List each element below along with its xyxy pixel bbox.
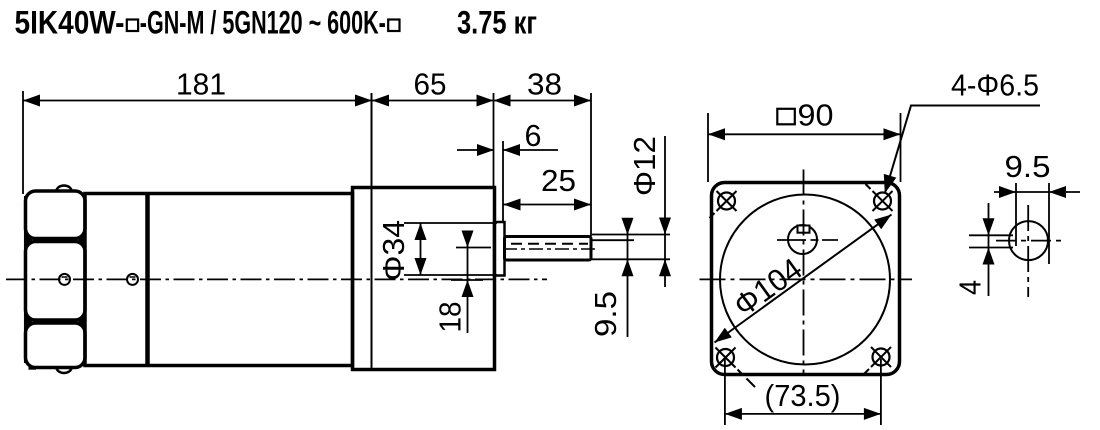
dim 6 tail right	[503, 149, 558, 151]
shaft flat hidden line	[511, 243, 588, 245]
terminal cover 2	[26, 242, 86, 321]
top screw bump	[57, 186, 72, 192]
svg-text:4-Φ6.5: 4-Φ6.5	[951, 68, 1039, 103]
shaft section circle	[1009, 221, 1048, 260]
screw head left	[59, 274, 70, 285]
dim 181 extension left	[22, 91, 24, 194]
screw head right	[127, 274, 138, 285]
horizontal centerline	[700, 278, 913, 280]
terminal box left spine	[24, 196, 27, 363]
svg-text:Φ104: Φ104	[727, 251, 808, 323]
svg-text:25: 25	[541, 163, 576, 198]
dim 90 square symbol	[777, 109, 795, 125]
svg-text:18: 18	[433, 302, 468, 333]
terminal cover 3	[26, 323, 86, 368]
dim phi12 extension top	[592, 234, 670, 236]
svg-text:3.75 кг: 3.75 кг	[457, 5, 537, 41]
title square 2	[388, 20, 399, 32]
dim 181 line	[23, 100, 372, 102]
dim 90 extension left	[707, 113, 709, 182]
keyway notch	[798, 226, 810, 233]
dim 4 reference top	[969, 234, 1013, 236]
dim 6 tail left	[457, 149, 494, 151]
svg-text:Φ12: Φ12	[627, 136, 662, 196]
main centerline	[6, 278, 547, 280]
bolt hole BL	[716, 348, 756, 388]
bolt hole TL	[710, 191, 737, 218]
svg-text:Φ34: Φ34	[376, 220, 411, 281]
dim 18 tick top	[456, 247, 491, 249]
dim 38 extension right	[590, 93, 592, 236]
spine cusp 1	[26, 235, 33, 246]
svg-text:5IK40W-: 5IK40W-	[15, 5, 125, 41]
spine cusp 2	[26, 316, 33, 327]
dim 73.5 extension right	[880, 359, 882, 425]
gearbox flange line and 65 extension	[371, 93, 373, 370]
dim 18 tick bottom	[451, 279, 483, 281]
flange square	[712, 183, 900, 375]
detail vertical centerline	[1027, 205, 1029, 297]
svg-text:90: 90	[798, 98, 834, 133]
bolt hole BR	[864, 347, 891, 374]
dim phi104 diagonal line	[715, 215, 892, 343]
svg-text:6: 6	[525, 118, 542, 153]
vertical centerline	[803, 170, 805, 376]
hole centerline tick right	[822, 239, 838, 241]
spine cusp right 2	[78, 316, 85, 327]
title square 1	[127, 20, 138, 32]
dim 9.5 detail line	[994, 191, 1080, 193]
svg-text:4: 4	[953, 280, 988, 295]
dim 38 line	[494, 100, 592, 102]
output hole	[788, 225, 817, 254]
motor body	[85, 194, 353, 366]
dim 90 extension right	[900, 113, 902, 182]
dim 90 line	[708, 133, 901, 135]
bolt hole TR	[866, 184, 893, 211]
svg-text:(73.5): (73.5)	[765, 378, 841, 413]
dim phi34 extension top	[404, 222, 497, 224]
dim 4 line	[988, 203, 990, 296]
svg-text:38: 38	[527, 67, 562, 102]
dim 18 line	[467, 232, 469, 333]
dim 9.5 detail extension left	[1015, 183, 1017, 246]
gearbox pilot circle	[720, 195, 890, 365]
terminal cover 1	[26, 191, 86, 239]
dim 65 line	[372, 100, 494, 102]
dim 6 extension boss	[502, 141, 504, 221]
gearbox body	[353, 188, 495, 370]
dim phi34 extension bottom	[404, 274, 497, 276]
output shaft	[505, 237, 592, 261]
svg-text:9.5: 9.5	[588, 291, 623, 337]
bottom screw bump	[57, 368, 72, 374]
hole centerline tick dash	[811, 239, 819, 241]
dim 9.5 line	[627, 224, 629, 337]
callout leader line	[885, 106, 1040, 194]
dim 73.5 line	[725, 413, 881, 415]
spine cusp right 1	[78, 235, 85, 246]
dim 25 line	[504, 204, 592, 206]
dim 9.5 extension flat	[592, 239, 634, 241]
motor bearing line	[145, 194, 150, 366]
dim 4 reference bottom	[969, 247, 1013, 249]
dim 73.5 extension left	[724, 359, 726, 425]
dim 38 extension left	[493, 93, 495, 186]
detail horizontal centerline	[996, 240, 1066, 242]
hole centerline tick left	[777, 239, 806, 241]
svg-text:9.5: 9.5	[1005, 149, 1051, 184]
svg-text:65: 65	[414, 67, 447, 102]
svg-text:-GN-M / 5GN120 ~ 600K-: -GN-M / 5GN120 ~ 600K-	[140, 5, 386, 41]
svg-text:181: 181	[176, 67, 226, 102]
shaft centerline	[503, 248, 597, 250]
dim phi12 extension bottom	[592, 258, 670, 260]
dim phi12 line	[664, 136, 666, 287]
foot tab	[29, 367, 37, 370]
shaft boss	[494, 222, 505, 276]
dim 9.5 detail extension right	[1048, 183, 1050, 264]
dim phi34 line	[420, 223, 422, 275]
